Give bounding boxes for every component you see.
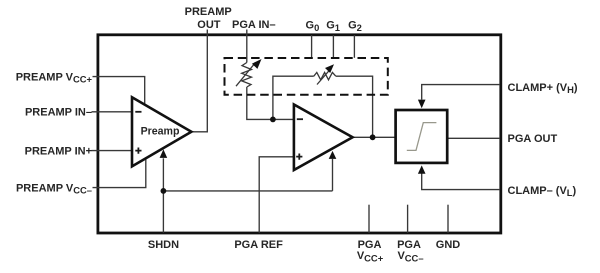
- svg-text:PREAMP VCC–: PREAMP VCC–: [16, 182, 92, 195]
- svg-text:OUT: OUT: [197, 19, 221, 31]
- svg-text:CLAMP+ (VH): CLAMP+ (VH): [508, 82, 578, 95]
- svg-text:PGA OUT: PGA OUT: [508, 133, 558, 145]
- svg-text:PGA IN–: PGA IN–: [232, 19, 276, 31]
- svg-text:CLAMP– (VL): CLAMP– (VL): [508, 185, 577, 198]
- svg-text:VCC+: VCC+: [357, 250, 384, 263]
- svg-text:GND: GND: [436, 239, 461, 251]
- svg-text:G2: G2: [348, 20, 362, 33]
- svg-text:PREAMP IN+: PREAMP IN+: [25, 145, 92, 157]
- svg-text:PREAMP VCC+: PREAMP VCC+: [16, 71, 93, 84]
- svg-text:VCC–: VCC–: [397, 250, 423, 263]
- svg-text:SHDN: SHDN: [148, 239, 179, 251]
- svg-text:PREAMP IN–: PREAMP IN–: [25, 107, 92, 119]
- svg-text:PGA REF: PGA REF: [234, 239, 283, 251]
- svg-text:G0: G0: [306, 20, 320, 33]
- svg-text:PREAMP: PREAMP: [185, 6, 232, 18]
- svg-text:Preamp: Preamp: [141, 125, 180, 137]
- svg-text:G1: G1: [326, 20, 340, 33]
